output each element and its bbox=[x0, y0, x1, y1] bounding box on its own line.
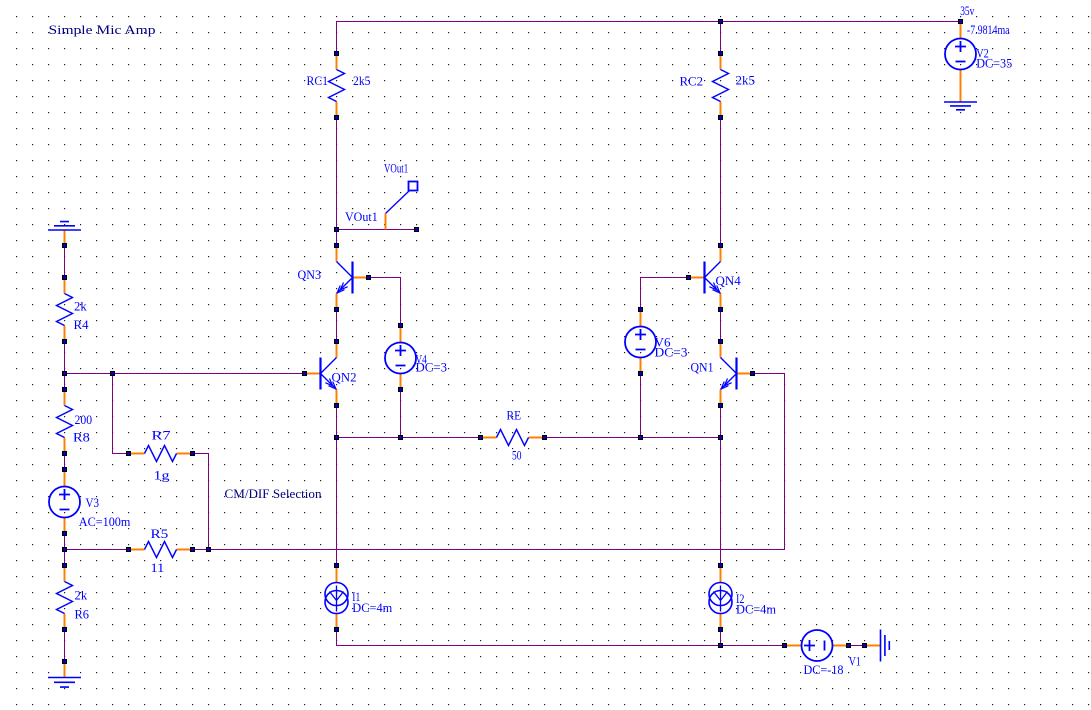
resistor R7 bbox=[126, 446, 195, 462]
wire VOut1 stub bbox=[337, 229, 417, 231]
svg-text:2k5: 2k5 bbox=[736, 73, 756, 88]
wire R5 to QN1 base bbox=[193, 374, 785, 550]
svg-text:1g: 1g bbox=[154, 468, 171, 483]
resistor R5 bbox=[126, 542, 195, 558]
wire I2 to bottom rail bbox=[720, 630, 722, 646]
svg-text:QN3: QN3 bbox=[298, 267, 322, 282]
svg-text:DC=4m: DC=4m bbox=[352, 600, 392, 615]
svg-text:V1: V1 bbox=[849, 653, 861, 668]
svg-text:V3: V3 bbox=[86, 495, 100, 510]
current source I2 bbox=[709, 563, 732, 632]
svg-text:RE: RE bbox=[507, 408, 522, 423]
wire RC1 bottom to VOut1 node bbox=[336, 118, 338, 230]
transistor QN2 bbox=[302, 339, 339, 408]
wire RC2 bottom to QN4 collector bbox=[720, 118, 722, 246]
wire node A to QN2 base bbox=[65, 373, 305, 375]
svg-text:DC=3: DC=3 bbox=[655, 345, 688, 360]
svg-text:R4: R4 bbox=[74, 317, 89, 332]
junction bbox=[206, 547, 211, 552]
svg-text:2k: 2k bbox=[74, 299, 87, 314]
wire rail left to RE bbox=[337, 437, 481, 439]
transistor QN4 bbox=[686, 243, 723, 312]
transistor QN1 bbox=[718, 339, 755, 408]
svg-text:R6: R6 bbox=[75, 607, 90, 622]
svg-text:VOut1: VOut1 bbox=[345, 209, 378, 224]
junction bbox=[334, 435, 339, 440]
wire R7 right to R5 node bbox=[193, 454, 209, 550]
svg-text:Simple Mic Amp: Simple Mic Amp bbox=[49, 22, 156, 37]
wire node B to R5 bbox=[65, 549, 129, 551]
svg-text:RC1: RC1 bbox=[307, 73, 329, 88]
ground (bottom left) bbox=[48, 659, 81, 687]
wire rail to I1 bbox=[336, 438, 338, 566]
svg-text:DC=35: DC=35 bbox=[976, 56, 1012, 71]
wire node A down to R7 bbox=[113, 374, 129, 454]
junction bbox=[718, 435, 723, 440]
junction bbox=[718, 643, 723, 648]
transistor QN3 bbox=[334, 243, 371, 312]
junction bbox=[62, 547, 67, 552]
current source I1 bbox=[325, 563, 348, 632]
wire V3 to R6 bbox=[64, 534, 66, 566]
wire ground to R4 bbox=[64, 246, 66, 278]
junction bbox=[334, 227, 339, 232]
resistor R4 bbox=[57, 275, 73, 344]
resistor R6 bbox=[57, 563, 73, 632]
wire I1 to bottom rail bbox=[337, 630, 785, 646]
wire node to QN3 collector bbox=[336, 230, 338, 246]
svg-text:RC2: RC2 bbox=[680, 74, 704, 89]
resistor RE bbox=[478, 430, 547, 446]
voltage source V1 bbox=[782, 630, 851, 661]
svg-text:AC=100m: AC=100m bbox=[79, 514, 131, 529]
junction bbox=[398, 435, 403, 440]
wire QN3 base to V4 bbox=[369, 278, 401, 326]
wire V1 right to ground bbox=[849, 645, 865, 647]
wire V4 to rail bbox=[400, 390, 402, 438]
wire QN1 emitter to rail bbox=[720, 406, 722, 438]
wire V6 to rail bbox=[640, 374, 642, 438]
svg-text:50: 50 bbox=[512, 448, 522, 463]
svg-text:R7: R7 bbox=[152, 428, 172, 443]
ground (V2) bbox=[944, 102, 977, 110]
wire RC2 top bbox=[720, 22, 722, 54]
wire RE to rail right bbox=[545, 437, 721, 439]
svg-text:DC=-18: DC=-18 bbox=[804, 662, 844, 677]
wire QN4 base to V6 bbox=[641, 278, 689, 310]
voltage source V3 bbox=[49, 467, 80, 536]
wire rail to I2 bbox=[720, 438, 722, 566]
junction bbox=[110, 371, 115, 376]
svg-text:200: 200 bbox=[75, 412, 93, 427]
svg-text:DC=3: DC=3 bbox=[416, 360, 448, 375]
wire QN2 emitter to rail bbox=[336, 406, 338, 438]
wire R4 to R8 bbox=[64, 342, 66, 390]
voltage source V2 bbox=[945, 19, 976, 102]
voltage source V4 bbox=[385, 323, 416, 392]
svg-text:2k5: 2k5 bbox=[353, 73, 371, 88]
svg-text:R5: R5 bbox=[151, 526, 169, 541]
wire top rail RC1 to V2 bbox=[337, 22, 961, 54]
svg-text:R8: R8 bbox=[73, 430, 90, 445]
svg-text:QN1: QN1 bbox=[691, 360, 714, 375]
wire R8 to V3 bbox=[64, 454, 66, 470]
output pin VOut1 bbox=[386, 182, 420, 233]
svg-text:-7.9814ma: -7.9814ma bbox=[967, 22, 1010, 37]
resistor R8 bbox=[57, 387, 73, 456]
junction bbox=[638, 435, 643, 440]
svg-text:11: 11 bbox=[151, 560, 165, 575]
svg-text:QN4: QN4 bbox=[716, 273, 742, 288]
ground (bottom right) bbox=[862, 630, 889, 662]
voltage source V6 bbox=[625, 307, 656, 376]
wire QN4 emitter to QN1 collector bbox=[720, 310, 722, 342]
junction bbox=[718, 19, 723, 24]
svg-text:DC=4m: DC=4m bbox=[736, 602, 776, 617]
junction bbox=[62, 371, 67, 376]
resistor RC1 bbox=[329, 51, 345, 120]
wire R6 to ground bbox=[64, 630, 66, 662]
resistor RC2 bbox=[713, 51, 729, 120]
svg-text:35v: 35v bbox=[960, 3, 975, 18]
svg-text:QN2: QN2 bbox=[332, 370, 357, 385]
wire QN3 emitter to QN2 collector bbox=[336, 310, 338, 342]
svg-text:VOut1: VOut1 bbox=[384, 160, 408, 175]
ground (top left) bbox=[48, 222, 81, 248]
svg-text:2k: 2k bbox=[75, 588, 88, 603]
svg-text:CM/DIF Selection: CM/DIF Selection bbox=[225, 486, 322, 501]
